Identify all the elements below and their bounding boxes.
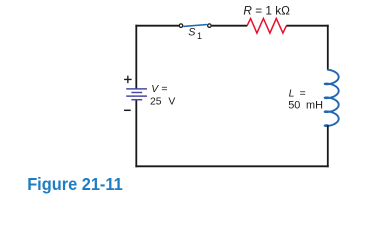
svg-text:1: 1 (197, 31, 202, 41)
inductor L coil (325, 70, 339, 126)
wire top side: resistor to top-right corner (286, 25, 328, 27)
wire left side: bottom-left corner to battery (135, 100, 137, 168)
wire right side: inductor to bottom-right corner (327, 125, 329, 167)
battery plate long lower (126, 95, 147, 97)
svg-text:L=: L= (289, 89, 306, 100)
switch S1 blade (183, 25, 207, 27)
battery + label (124, 76, 132, 84)
battery plate short upper (131, 92, 142, 94)
svg-text:S: S (188, 27, 196, 39)
switch S1 right contact circle (208, 24, 212, 28)
battery plate long top (126, 88, 147, 90)
battery minus label (124, 109, 131, 111)
wire left side: battery to top-left corner (135, 25, 137, 89)
switch S1 left contact circle (179, 24, 183, 28)
resistor R zigzag (247, 19, 286, 34)
svg-text:R = 1 kΩ: R = 1 kΩ (243, 4, 290, 18)
wire top side: switch to resistor (212, 25, 248, 27)
svg-text:25V: 25V (150, 96, 175, 107)
battery plate short bottom (131, 99, 142, 101)
wire top side: top-left corner to switch (135, 25, 179, 27)
wire bottom side (135, 165, 328, 167)
svg-text:V=: V= (151, 84, 167, 95)
wire right side: top-right corner to inductor (327, 25, 329, 70)
svg-text:Figure 21-11: Figure 21-11 (27, 174, 123, 194)
svg-text:50mH: 50mH (288, 99, 323, 111)
